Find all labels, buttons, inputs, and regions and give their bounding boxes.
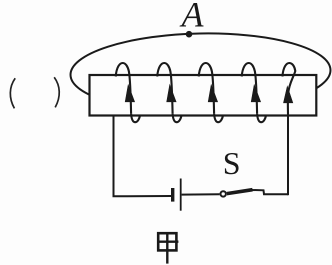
coil turn 1 (with current arrow)	[116, 63, 140, 122]
wire: top loop from coil to point A (large ellipse)	[70, 31, 331, 114]
answer blank: right parenthesis	[54, 77, 59, 107]
answer blank: left parenthesis	[10, 78, 15, 108]
wire: battery to switch pivot	[182, 193, 220, 195]
switch S: blade (open, drawn thick)	[227, 190, 253, 194]
svg-text:A: A	[180, 0, 205, 35]
switch S: pivot circle	[221, 191, 226, 196]
wire: bottom-left horizontal to battery	[113, 195, 172, 197]
node A (dot on top loop)	[186, 31, 193, 38]
wire: left lead from coil down to battery	[113, 116, 115, 197]
coil turn 2 (with current arrow)	[157, 63, 181, 122]
wire: right vertical (coil lead to bottom wire corner)	[287, 114, 289, 195]
svg-text:S: S	[223, 145, 241, 181]
battery (positive long thin plate)	[180, 179, 182, 211]
battery (negative short thick plate)	[171, 188, 174, 202]
coil core (iron core rectangle)	[90, 75, 317, 116]
coil turn 4 (with current arrow)	[242, 63, 266, 122]
label 甲 (drawn, CJK glyph)	[157, 233, 178, 264]
coil turn 5 (with current arrow, lead continues down as right wire)	[282, 63, 295, 114]
wire: blade end jog down to wire level	[252, 190, 288, 194]
coil turn 3 (with current arrow)	[199, 63, 223, 122]
